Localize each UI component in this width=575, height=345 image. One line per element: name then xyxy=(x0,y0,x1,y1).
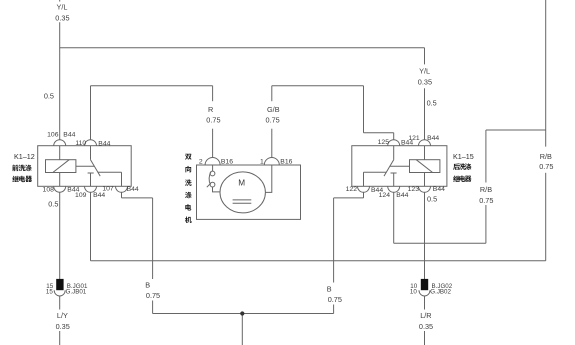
wire L/Y bottom stub xyxy=(59,331,61,345)
svg-text:0.35: 0.35 xyxy=(55,14,69,23)
wire park switch top lead xyxy=(212,165,214,171)
wire contact 124 lead xyxy=(393,173,395,186)
svg-text:0.75: 0.75 xyxy=(539,162,553,171)
svg-text:B44: B44 xyxy=(98,140,110,147)
terminal 123 xyxy=(419,186,431,192)
wire G/B drop upper segment xyxy=(271,86,273,102)
relay K1-15 actuator link xyxy=(390,165,410,167)
svg-text:0.35: 0.35 xyxy=(56,322,70,331)
terminal 121 xyxy=(419,140,431,146)
wire B left drop lower xyxy=(152,301,154,314)
wire terminal 124 drop xyxy=(393,192,395,243)
svg-text:0.5: 0.5 xyxy=(44,92,54,101)
relay K1-15 contact tick 124 xyxy=(391,172,397,174)
junction node B xyxy=(240,311,244,315)
connector 10 male pin xyxy=(421,279,428,290)
wire terminal 107 stub xyxy=(121,192,123,198)
svg-text:B44: B44 xyxy=(127,186,139,193)
svg-text:R: R xyxy=(208,105,213,114)
svg-text:109: 109 xyxy=(75,192,87,199)
svg-text:B44: B44 xyxy=(63,132,75,139)
svg-text:123: 123 xyxy=(408,186,420,193)
motor DC bar lower xyxy=(233,202,252,204)
svg-text:0.75: 0.75 xyxy=(206,115,220,124)
wire horizontal to terminal 124 drop xyxy=(394,242,486,244)
connector 15 male pin xyxy=(56,279,63,290)
svg-text:0.75: 0.75 xyxy=(265,115,279,124)
label front washer relay line1 xyxy=(12,165,31,171)
motor M1 circle xyxy=(220,172,265,213)
svg-text:B44: B44 xyxy=(427,135,439,142)
terminal 108 xyxy=(54,186,66,192)
svg-text:0.5: 0.5 xyxy=(427,98,437,107)
wire contact 122 lead xyxy=(363,172,365,186)
park switch cam tick xyxy=(207,183,211,187)
motor pin 2 xyxy=(205,158,220,165)
wire R drop upper segment xyxy=(212,86,214,102)
svg-text:R/B: R/B xyxy=(480,185,492,194)
wire R/B right vertical lower segment xyxy=(545,173,547,261)
wire right connector to L/R label xyxy=(424,296,426,310)
svg-text:L/Y: L/Y xyxy=(57,311,68,320)
wire contact 110 lead xyxy=(90,146,92,160)
wire vertical down to jog xyxy=(363,86,365,133)
label front washer relay line2 xyxy=(12,176,32,182)
motor box xyxy=(197,165,301,219)
park switch contact upper xyxy=(210,171,215,176)
wire contact 122 trace xyxy=(364,171,387,173)
wire ground stub center xyxy=(241,314,243,345)
wire coil bottom lead right xyxy=(424,173,426,187)
wire left connector to L/Y label xyxy=(59,296,61,310)
wire Y/L left vertical to terminal 106 xyxy=(59,22,61,140)
svg-text:B16: B16 xyxy=(280,158,292,165)
wire R/B right vertical upper segment xyxy=(545,0,547,147)
relay K1-12 coil xyxy=(46,160,76,173)
wire contact 107 trace xyxy=(98,171,122,173)
svg-text:G.JB01: G.JB01 xyxy=(66,288,87,295)
wire bottom U horizontal xyxy=(153,313,334,315)
wire jog 122 to B drop xyxy=(334,197,364,199)
svg-text:K1–15: K1–15 xyxy=(453,152,474,161)
wire park switch lower lead xyxy=(213,187,221,192)
relay K1-15 contact blade xyxy=(384,160,394,176)
wire jog 107 to B drop xyxy=(122,197,153,199)
wire Y/L right drop upper segment xyxy=(424,48,426,65)
relay K1-12 contact blade xyxy=(91,160,101,176)
svg-text:M: M xyxy=(238,179,245,188)
svg-text:0.75: 0.75 xyxy=(328,295,342,304)
svg-text:R/B: R/B xyxy=(540,152,552,161)
svg-text:2: 2 xyxy=(199,158,203,165)
wire horizontal G/B to right xyxy=(272,85,364,87)
wire contact 125 lead xyxy=(393,146,395,160)
terminal 109 xyxy=(85,186,97,192)
relay K1-15 box xyxy=(352,146,447,187)
svg-text:G/B: G/B xyxy=(267,105,280,114)
wire jog horizontal to terminal 125 xyxy=(364,132,394,134)
park switch contact lower xyxy=(210,182,215,187)
svg-text:B44: B44 xyxy=(396,192,408,199)
wire G/B drop to motor pin 1 xyxy=(271,129,273,158)
wire contact 109 lead xyxy=(90,173,92,186)
terminal 106 xyxy=(54,140,66,146)
motor pin 1 xyxy=(264,158,279,165)
svg-text:0.5: 0.5 xyxy=(48,199,58,208)
svg-text:0.5: 0.5 xyxy=(427,195,437,204)
wire coil top lead right xyxy=(424,146,426,160)
terminal 124 xyxy=(388,186,400,192)
svg-text:K1–12: K1–12 xyxy=(14,152,35,161)
svg-text:1: 1 xyxy=(260,158,264,165)
wire R/B branch vertical upper xyxy=(485,130,487,183)
svg-text:110: 110 xyxy=(75,140,86,147)
svg-text:0.75: 0.75 xyxy=(479,196,493,205)
svg-text:B44: B44 xyxy=(433,186,445,193)
svg-text:124: 124 xyxy=(379,192,391,199)
svg-text:Y/L: Y/L xyxy=(419,67,430,76)
terminal 110 xyxy=(85,140,97,146)
terminal 122 xyxy=(358,186,370,192)
terminal 107 xyxy=(116,186,128,192)
wire branch horizontal R/B xyxy=(486,129,546,131)
svg-text:L/R: L/R xyxy=(420,311,431,320)
relay K1-15 coil diagonal xyxy=(416,160,432,173)
wire motor pin 1 lead xyxy=(265,165,271,192)
svg-text:107: 107 xyxy=(102,186,114,193)
svg-text:B: B xyxy=(327,285,332,294)
wire bottom long horizontal bus xyxy=(91,260,546,262)
svg-text:0.75: 0.75 xyxy=(146,291,160,300)
wire coil bottom lead xyxy=(59,173,61,187)
terminal 125 xyxy=(388,140,400,146)
svg-text:Y/L: Y/L xyxy=(57,2,68,11)
relay K1-12 box xyxy=(38,146,132,187)
wire top horizontal bus Y/L xyxy=(60,47,425,49)
connector 15 female arc xyxy=(54,290,65,296)
relay K1-15 coil xyxy=(410,160,440,173)
svg-text:15: 15 xyxy=(46,288,53,295)
wire B right drop lower xyxy=(333,305,335,314)
svg-text:0.35: 0.35 xyxy=(418,78,432,87)
wire short drop to terminal 125 xyxy=(393,133,395,140)
wire terminal 109 drop xyxy=(90,192,92,260)
wire contact 107 lead xyxy=(121,172,123,186)
svg-text:125: 125 xyxy=(378,139,390,146)
svg-text:106: 106 xyxy=(47,132,59,139)
svg-text:B44: B44 xyxy=(93,192,105,199)
wire B left drop upper xyxy=(152,198,154,279)
svg-text:0.35: 0.35 xyxy=(419,322,433,331)
svg-text:121: 121 xyxy=(408,135,420,142)
label rear washer relay line2 xyxy=(453,176,471,182)
label washer motor vertical xyxy=(185,154,192,223)
wire L/R bottom stub xyxy=(424,331,426,345)
wire Y/L top stub xyxy=(59,0,61,2)
wire R/B branch vertical lower xyxy=(485,205,487,243)
wire Y/L right drop to terminal 121 xyxy=(424,88,426,140)
park switch blade xyxy=(209,172,211,185)
label rear washer relay line1 xyxy=(453,163,471,169)
motor DC bar upper xyxy=(233,199,252,201)
svg-text:B: B xyxy=(145,281,150,290)
wire B right drop upper xyxy=(333,198,335,283)
relay K1-12 contact tick 109 xyxy=(88,172,94,174)
wire terminal 122 stub xyxy=(363,192,365,198)
svg-text:B16: B16 xyxy=(221,158,233,165)
wire terminal 108 drop to connector xyxy=(59,192,61,279)
svg-text:G.JB02: G.JB02 xyxy=(430,288,451,295)
svg-text:108: 108 xyxy=(43,187,55,194)
wire terminal 110 riser xyxy=(90,86,92,140)
relay K1-12 coil diagonal xyxy=(53,160,69,173)
svg-text:122: 122 xyxy=(346,186,358,193)
wire horizontal 110 to R drop xyxy=(91,85,213,87)
connector 10 female arc xyxy=(419,290,430,296)
svg-text:10: 10 xyxy=(410,288,417,295)
wire terminal 123 drop to connector xyxy=(424,192,426,279)
wire coil top lead xyxy=(59,146,61,160)
wire R drop to motor pin 2 xyxy=(212,129,214,158)
relay K1-12 actuator link xyxy=(76,165,94,167)
